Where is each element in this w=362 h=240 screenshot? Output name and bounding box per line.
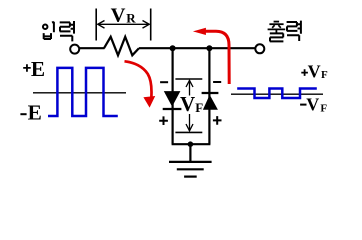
junction node right branch <box>206 45 212 51</box>
svg-text:V: V <box>180 92 195 116</box>
svg-text:R: R <box>126 10 136 25</box>
input terminal circle <box>70 45 79 54</box>
svg-text:E: E <box>31 57 45 81</box>
polarity minus right of D2 <box>213 81 221 83</box>
junction node left branch <box>170 45 176 51</box>
svg-text:F: F <box>321 69 328 81</box>
junction node to ground <box>188 141 194 147</box>
left branch wire <box>172 48 174 144</box>
label +V_F <box>301 61 328 81</box>
polarity minus left of D1 <box>160 81 168 83</box>
input waveform axis <box>33 92 126 94</box>
current arrow red (through R to D1) <box>125 61 156 107</box>
svg-text:V: V <box>111 4 126 26</box>
V_F up arrow <box>186 80 193 95</box>
diode D2 (right, cathode up) <box>202 93 219 110</box>
resistor R <box>104 37 139 56</box>
polarity plus left of D1 <box>159 116 168 125</box>
V_R dimension right tick <box>150 9 152 41</box>
label 출력 (output) <box>268 21 301 42</box>
polarity plus right of D2 <box>213 116 222 125</box>
label 입력 (input) <box>43 21 74 41</box>
ground <box>169 162 212 177</box>
V_F down arrow <box>186 114 193 131</box>
svg-text:F: F <box>320 102 327 114</box>
wire resistor to output terminal <box>139 47 256 49</box>
V_F dimension bottom tick <box>175 131 202 133</box>
output square wave <box>237 89 317 99</box>
wire terminal to resistor <box>80 47 105 49</box>
V_R dimension left tick <box>95 9 97 41</box>
label +E <box>23 57 45 81</box>
label -E <box>20 101 41 125</box>
bottom wire joining branches <box>172 143 211 145</box>
output terminal circle <box>255 44 264 53</box>
diode D1 (left, cathode down) <box>163 91 182 109</box>
label -V_F <box>300 95 327 115</box>
input square wave <box>48 68 118 116</box>
svg-text:E: E <box>28 101 42 125</box>
wire to ground <box>189 144 191 161</box>
svg-text:V: V <box>308 61 321 81</box>
right branch wire <box>208 48 210 144</box>
output waveform axis <box>231 93 323 95</box>
V_R dimension double arrow <box>98 21 150 29</box>
svg-text:F: F <box>195 100 203 115</box>
current arrow red (from D2 to output) <box>193 28 229 84</box>
V_F dimension top tick <box>175 78 202 80</box>
svg-text:V: V <box>306 95 319 115</box>
